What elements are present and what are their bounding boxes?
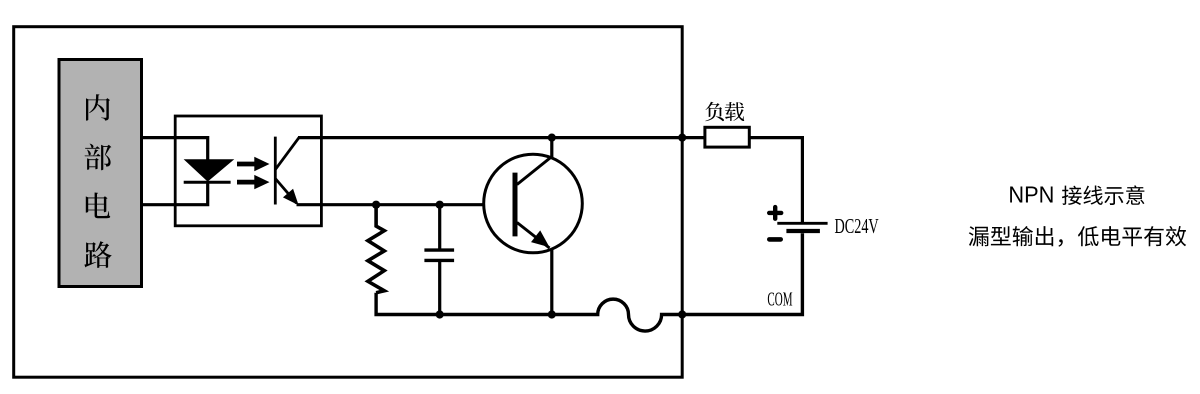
battery plus sign — [769, 207, 781, 219]
junction dot at resistor top — [372, 201, 380, 209]
junction dot at capacitor top — [436, 201, 444, 209]
phototransistor base bar — [274, 137, 277, 205]
transistor Q1 circle — [484, 154, 583, 253]
light arrow 2 — [237, 175, 270, 189]
transistor Q1 emitter lead — [550, 249, 553, 315]
battery BT1 negative plate — [786, 229, 820, 233]
label 载 — [725, 102, 744, 121]
label 负 — [705, 102, 724, 121]
transistor Q1 emitter arrowhead — [532, 232, 548, 246]
svg-text:NPN: NPN — [1008, 182, 1054, 208]
internal circuit block — [59, 60, 142, 287]
label 内 — [86, 94, 110, 120]
battery BT1 positive plate — [777, 222, 827, 225]
resistor R1 — [368, 205, 384, 293]
transistor Q1 emitter diagonal — [517, 223, 550, 249]
capacitor C1 bottom plate — [424, 259, 454, 262]
label 接线示意 — [1062, 185, 1145, 205]
junction dot collector at top rail — [548, 134, 556, 142]
junction dot capacitor bottom — [436, 310, 444, 318]
bottom rail wire with flexible squiggle — [376, 233, 802, 331]
label 电 — [86, 193, 110, 219]
battery minus sign — [769, 237, 780, 242]
phototransistor collector diagonal — [275, 138, 299, 170]
transistor Q1 base bar — [513, 173, 518, 237]
LED D1 cathode bar — [184, 181, 231, 184]
label 路 — [84, 241, 111, 268]
label 漏型输出，低电平有效 — [969, 226, 1186, 247]
emitter net wire to transistor base — [297, 203, 484, 206]
light arrow 1 — [237, 157, 270, 171]
junction dot bottom rail at enclosure edge — [678, 310, 686, 318]
junction dot emitter bottom — [548, 310, 556, 318]
capacitor C1 top lead — [438, 205, 441, 250]
optocoupler U1 box — [175, 116, 321, 226]
transistor Q1 collector diagonal — [517, 156, 553, 185]
transistor Q1 collector lead — [550, 138, 553, 157]
phototransistor emitter arrowhead — [284, 190, 297, 204]
wire load resistor to battery — [749, 138, 802, 223]
phototransistor emitter diagonal — [275, 179, 296, 204]
wire internal circuit to LED cathode — [141, 182, 208, 205]
capacitor C1 bottom lead — [438, 260, 441, 314]
LED D1 triangle — [185, 160, 233, 181]
wire internal circuit to LED anode — [141, 138, 208, 160]
load resistor box — [705, 127, 749, 147]
collector net wire (top rail) — [298, 136, 705, 139]
outer enclosure box — [14, 27, 683, 378]
capacitor C1 top plate — [424, 248, 454, 251]
svg-text:DC24V: DC24V — [835, 216, 879, 238]
junction dot top rail at enclosure edge — [678, 134, 686, 142]
svg-text:COM: COM — [767, 289, 792, 311]
label 部 — [85, 144, 112, 171]
